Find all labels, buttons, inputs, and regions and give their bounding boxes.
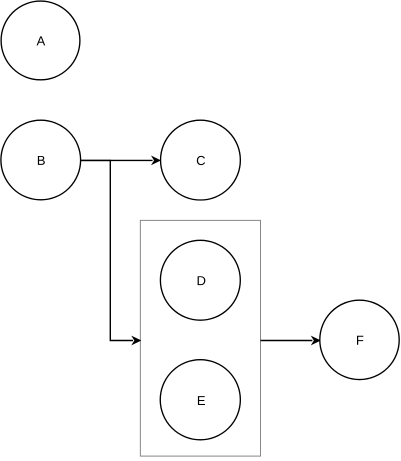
container rectangle (140, 220, 260, 456)
node F (320, 300, 399, 379)
node C (161, 120, 241, 200)
node B (1, 120, 81, 200)
node E (160, 360, 240, 440)
wire container to F (261, 337, 320, 344)
wire B to container (81, 160, 141, 344)
wire B to C (81, 157, 160, 164)
node A (1, 1, 80, 80)
node D (160, 240, 240, 320)
